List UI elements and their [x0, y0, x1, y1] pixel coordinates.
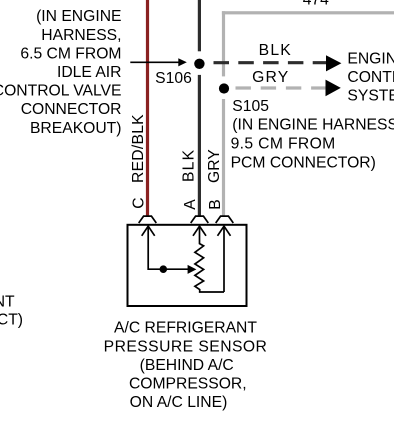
sensor pin B arrow chevron: [218, 226, 231, 236]
svg-text:PCM CONNECTOR): PCM CONNECTOR): [231, 154, 376, 171]
svg-text:CONNECTOR: CONNECTOR: [21, 101, 122, 118]
svg-text:PRESSURE SENSOR: PRESSURE SENSOR: [104, 338, 268, 355]
svg-text:(BEHIND A/C: (BEHIND A/C: [140, 357, 234, 374]
svg-text:HARNESS,: HARNESS,: [41, 27, 121, 44]
svg-text:9.5 CM FROM: 9.5 CM FROM: [231, 136, 336, 153]
junction dot on wiper: [160, 265, 168, 273]
svg-text:CT): CT): [0, 312, 23, 329]
svg-text:ENGINE: ENGINE: [347, 51, 394, 68]
sensor box outline: [128, 225, 247, 306]
svg-text:474: 474: [303, 0, 329, 9]
svg-text:BLK: BLK: [259, 42, 292, 59]
svg-text:ON A/C LINE): ON A/C LINE): [130, 394, 228, 411]
splice S105 dot: [219, 83, 229, 93]
pointer arrow from S106 note to splice: [130, 61, 179, 63]
svg-text:S105: S105: [232, 98, 269, 115]
svg-text:GRY: GRY: [206, 149, 223, 183]
sensor pin A arrow chevron: [193, 226, 206, 236]
svg-text:SYSTEM: SYSTEM: [347, 88, 394, 105]
svg-text:GRY: GRY: [252, 69, 289, 86]
svg-text:BREAKOUT): BREAKOUT): [30, 120, 122, 137]
wiper wire from pin C: [148, 226, 188, 269]
arrowhead to engine control system (top): [326, 55, 341, 71]
resistor element (zigzag) from pin A: [195, 226, 224, 292]
connector pin C symbol: [139, 216, 157, 223]
svg-text:IDLE AIR: IDLE AIR: [57, 64, 122, 81]
svg-text:6.5 CM FROM: 6.5 CM FROM: [20, 45, 121, 62]
wiper arrowhead: [188, 265, 197, 274]
svg-text:CONTROL: CONTROL: [347, 69, 394, 86]
connector pin B symbol: [216, 216, 234, 223]
wire GRY vertical upper segment: [222, 11, 225, 76]
svg-text:A: A: [182, 199, 199, 210]
svg-text:S106: S106: [155, 70, 192, 87]
connector pin A symbol: [191, 216, 209, 223]
svg-text:CONTROL VALVE: CONTROL VALVE: [0, 83, 122, 100]
dashed GRY wire to engine control system: [236, 86, 327, 89]
splice S106 dot: [194, 59, 204, 69]
svg-text:(IN ENGINE: (IN ENGINE: [36, 8, 121, 25]
wire from pin B to resistor bottom: [223, 226, 225, 292]
wire RED/BLK vertical: [146, 0, 149, 216]
wire GRY vertical lower segment: [222, 99, 225, 216]
svg-text:C: C: [131, 197, 148, 208]
wire BLK vertical lower segment: [198, 75, 201, 216]
sensor pin C arrow chevron: [142, 226, 155, 236]
svg-text:RED/BLK: RED/BLK: [130, 114, 147, 183]
wire GRY circuit 474 horizontal top run: [222, 11, 394, 14]
svg-text:BLK: BLK: [181, 149, 198, 182]
arrowhead to engine control system (bottom): [326, 80, 341, 97]
wire BLK vertical upper segment: [198, 0, 201, 51]
svg-text:NT: NT: [0, 293, 15, 310]
dashed BLK wire to engine control system: [214, 61, 328, 64]
svg-text:B: B: [207, 199, 224, 209]
svg-text:A/C REFRIGERANT: A/C REFRIGERANT: [114, 320, 257, 337]
svg-text:COMPRESSOR,: COMPRESSOR,: [129, 376, 247, 393]
svg-text:(IN ENGINE HARNESS,: (IN ENGINE HARNESS,: [232, 117, 394, 134]
